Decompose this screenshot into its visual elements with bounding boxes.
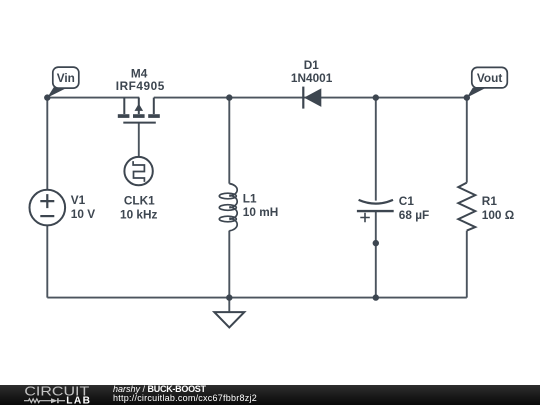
svg-text:L1: L1 (243, 191, 257, 205)
svg-text:V1: V1 (71, 193, 86, 207)
wire MOSFET gate lead to CLK1 (138, 123, 140, 158)
CircuitLab logo (0, 385, 110, 405)
node L1 bottom junction dot (226, 294, 232, 300)
capacitor C1 polarized (357, 200, 394, 222)
svg-text:CLK1: CLK1 (124, 194, 155, 208)
footer title text (113, 385, 257, 403)
wire V1 to bottom rail (46, 225, 48, 298)
node Vout junction dot (464, 94, 470, 100)
resistor R1 (458, 183, 475, 231)
node Vout flag (467, 67, 508, 97)
wire L1 top lead (228, 98, 230, 184)
svg-text:R1: R1 (482, 194, 498, 208)
svg-text:Vout: Vout (477, 71, 502, 85)
svg-text:D1: D1 (304, 58, 320, 72)
node L1 top junction dot (226, 94, 232, 100)
node C1 mid junction dot (373, 240, 379, 246)
svg-text:10 kHz: 10 kHz (120, 208, 157, 222)
inductor L1 (219, 184, 237, 231)
wire top MOSFET drain to Vout node (154, 97, 467, 99)
svg-text:M4: M4 (131, 66, 148, 80)
footer bar (0, 385, 540, 405)
svg-text:LAB: LAB (66, 396, 91, 405)
node Vin flag (47, 67, 79, 98)
wire ground stub (228, 298, 230, 313)
wire top-left Vin to MOSFET source/body (47, 97, 139, 99)
svg-text:1N4001: 1N4001 (291, 71, 333, 85)
svg-text:10 V: 10 V (71, 207, 95, 221)
svg-text:100 Ω: 100 Ω (482, 208, 514, 222)
wire R1 top lead (466, 98, 468, 183)
svg-text:C1: C1 (399, 194, 415, 208)
transistor M4 PMOS symbol (118, 98, 160, 123)
svg-text:Vin: Vin (57, 71, 75, 85)
wire C1 bottom lead (375, 211, 377, 298)
wire L1 bottom lead (228, 231, 230, 298)
svg-text:68 µF: 68 µF (399, 208, 429, 222)
wire R1 bottom lead (466, 231, 468, 298)
node C1 top junction dot (373, 94, 379, 100)
diode D1 (303, 87, 321, 109)
clock source CLK1 (124, 157, 152, 185)
wire left vertical Vin node to V1 (46, 98, 48, 191)
svg-text:10 mH: 10 mH (243, 205, 278, 219)
voltage source V1 (30, 190, 66, 226)
wire C1 top lead (375, 98, 377, 201)
svg-text:IRF4905: IRF4905 (116, 79, 165, 93)
node Vin junction dot (44, 94, 50, 100)
node C1 bottom junction dot (373, 294, 379, 300)
ground (214, 312, 244, 327)
wire bottom rail (47, 297, 467, 299)
